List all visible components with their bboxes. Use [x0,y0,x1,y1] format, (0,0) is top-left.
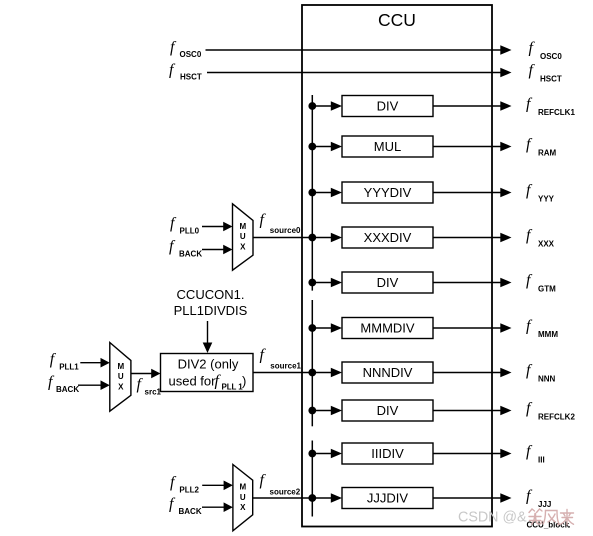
arrow f_MMM output [500,323,511,333]
node f_PLL0 input label [170,215,200,236]
svg-text:DIV: DIV [377,275,399,290]
arrow f_III output [500,449,511,459]
svg-text:source1: source1 [270,362,301,371]
node f_JJJ output label [526,488,551,510]
svg-text:used for: used for [169,374,217,389]
svg-text:M: M [117,362,124,371]
svg-text:U: U [240,232,246,241]
svg-text:HSCT: HSCT [180,73,202,82]
arrow f_BACK into MUX2 [224,502,233,512]
wire IIIDIV block to f_III output [433,453,501,455]
svg-text:REFCLK2: REFCLK2 [538,413,575,422]
node f_source2 label [260,472,301,496]
wire PLL1DIVDIS control to DIV2 [207,321,209,345]
arrow f_HSCT output [500,68,511,78]
node f_OSC0 output label [529,40,563,62]
arrow PLL1DIVDIS into DIV2 [203,343,213,354]
wire f_BACK to MUX1 [78,384,102,386]
svg-text:XXX: XXX [538,240,555,249]
node CCUCON1.PLL1DIVDIS control label [174,287,248,318]
node junction dot row 2 (RAM) [308,143,316,151]
svg-text:DIV: DIV [377,403,399,418]
mux MUX0 (source0) [233,204,254,270]
node f_NNN output label [526,362,556,384]
svg-text:YYYDIV: YYYDIV [364,185,412,200]
wire bus to JJJDIV block row 10 [312,497,331,499]
arrow f_PLL0 into MUX0 [223,222,232,232]
arrow into MMMDIV block row 6 [331,323,342,333]
svg-text:BACK: BACK [179,507,202,516]
arrow into IIIDIV block row 9 [331,449,342,459]
node junction dot row 5 (GTM) [308,279,316,287]
watermark glyph Bi [529,509,542,525]
node f_BACK input label (MUX2) [169,496,202,517]
arrow f_NNN output [500,368,511,378]
wire JJJDIV block to f_JJJ output [433,497,501,499]
node f_XXX output label [526,227,555,249]
node f_RAM output label [526,136,557,158]
svg-text:RAM: RAM [538,149,557,158]
svg-text:HSCT: HSCT [540,75,562,84]
wire XXXDIV block to f_XXX output [433,237,501,239]
node junction dot row 1 (REFCLK1) [308,102,316,110]
svg-text:CSDN @&: CSDN @& [458,510,527,526]
divider block JJJDIV row 10 [342,488,433,509]
node f_source1 label [260,347,302,371]
node junction dot row 6 (MMM) [308,324,316,332]
svg-text:source2: source2 [270,487,301,496]
svg-text:X: X [240,242,246,251]
node f_YYY output label [526,182,555,204]
wire f_src1 MUX1 to DIV2 [131,373,153,375]
svg-text:DIV2 (only: DIV2 (only [178,356,239,371]
node junction dot row 3 (YYY) [308,189,316,197]
wire bus to MUL block row 2 [312,146,331,148]
wire f_PLL2 to MUX2 [202,484,224,486]
wire bus to NNNDIV block row 7 [312,372,331,374]
svg-text:PLL2: PLL2 [179,485,199,494]
arrow f_XXX output [500,233,511,243]
svg-text:PLL0: PLL0 [180,227,200,236]
node f_GTM output label [526,272,556,294]
arrow into DIV block row 5 [331,278,342,288]
svg-text:PLL 1: PLL 1 [222,383,244,392]
svg-text:U: U [118,372,124,381]
svg-text:JJJDIV: JJJDIV [367,491,409,506]
node f_REFCLK2 output label [526,400,575,422]
svg-text:REFCLK1: REFCLK1 [538,108,575,117]
arrow f_REFCLK2 output [500,406,511,416]
svg-text:III: III [538,456,545,465]
svg-text:XXXDIV: XXXDIV [364,230,412,245]
arrow f_src1 into DIV2 [151,369,160,379]
svg-text:NNN: NNN [538,375,556,384]
wire bus to DIV block row 1 [312,105,331,107]
wire f_BACK to MUX0 [202,249,225,251]
wire f_PLL1 to MUX1 [80,362,102,364]
svg-text:CCU: CCU [378,10,416,30]
svg-text:X: X [240,503,246,512]
divider block NNNDIV row 7 [342,362,433,383]
divider block DIV row 5 [342,272,433,293]
divider block DIV row 8 [342,400,433,421]
divider block DIV row 1 [342,96,433,117]
wire f_BACK to MUX2 [202,506,225,508]
svg-text:M: M [239,222,246,231]
svg-text:CCUCON1.: CCUCON1. [177,287,245,302]
arrow f_OSC0 output [500,45,511,55]
wire MMMDIV block to f_MMM output [433,327,501,329]
arrow f_PLL2 into MUX2 [224,481,233,491]
divider block MMMDIV row 6 [342,318,433,339]
arrow f_BACK into MUX0 [223,245,232,255]
wire bus to IIIDIV block row 9 [312,453,331,455]
arrow into DIV block row 1 [331,101,342,111]
node f_HSCT input label [169,62,202,82]
wire bus to MMMDIV block row 6 [312,327,331,329]
node f_BACK input label (MUX1) [48,374,79,395]
node f_MMM output label [526,318,558,340]
node f_III output label [526,443,545,465]
arrow into NNNDIV block row 7 [331,368,342,378]
arrow f_REFCLK1 output [500,101,511,111]
arrow f_GTM output [500,278,511,288]
svg-text:DIV: DIV [377,99,399,114]
svg-text:): ) [242,374,246,389]
node f_PLL2 input label [170,474,200,495]
arrow f_BACK into MUX1 [101,380,110,390]
svg-text:U: U [240,493,246,502]
arrow f_YYY output [500,188,511,198]
svg-text:JJJ: JJJ [538,500,551,509]
mux MUX2 (source2) [233,465,253,531]
watermark glyph Feng [543,511,559,525]
svg-text:MMM: MMM [538,330,558,339]
svg-text:IIIDIV: IIIDIV [371,446,404,461]
wire bus segment source2 [311,441,313,517]
wire NNNDIV block to f_NNN output [433,372,501,374]
svg-text:X: X [118,382,124,391]
svg-text:MMMDIV: MMMDIV [360,321,414,336]
arrow into JJJDIV block row 10 [331,493,342,503]
svg-text:source0: source0 [270,226,301,235]
wire DIV block to f_REFCLK2 output [433,410,501,412]
wire f_source0 MUX0 to bus [253,237,312,239]
wire f_OSC0 through line [206,49,502,51]
wire bus segment source0 [311,95,313,291]
arrow f_RAM output [500,142,511,152]
arrow into MUL block row 2 [331,142,342,152]
svg-text:BACK: BACK [179,250,202,259]
wire bus to XXXDIV block row 4 [312,237,331,239]
svg-text:PLL1: PLL1 [59,363,79,372]
node junction dot row 4 (XXX) [308,234,316,242]
svg-text:BACK: BACK [56,385,79,394]
svg-text:MUL: MUL [374,139,401,154]
mux MUX1 (src1) [110,343,131,412]
divider block MUL row 2 [342,136,433,157]
svg-text:YYY: YYY [538,195,555,204]
node f_OSC0 input label [170,39,202,59]
arrow into DIV block row 8 [331,406,342,416]
node f_BACK input label (MUX0) [169,238,202,259]
svg-text:OSC0: OSC0 [180,50,202,59]
svg-text:OSC0: OSC0 [540,52,562,61]
node f_PLL1 input label [50,351,80,372]
wire YYYDIV block to f_YYY output [433,192,501,194]
divider block YYYDIV row 3 [342,182,433,203]
node f_HSCT output label [529,62,562,84]
svg-text:src1: src1 [145,387,162,396]
svg-text:NNNDIV: NNNDIV [363,365,413,380]
wire bus to YYYDIV block row 3 [312,192,331,194]
wire bus segment source1 [311,300,313,426]
arrow into YYYDIV block row 3 [331,188,342,198]
wire DIV block to f_REFCLK1 output [433,105,501,107]
divider block IIIDIV row 9 [342,443,433,464]
arrow f_JJJ output [500,493,511,503]
watermark glyph Lai [561,510,574,526]
wire f_source2 MUX2 to bus [253,497,313,499]
svg-text:M: M [239,483,246,492]
CCU block outline U1 [302,5,492,527]
node f_source0 label [260,212,302,236]
svg-text:GTM: GTM [538,285,556,294]
node f_src1 label [137,376,162,396]
svg-text:PLL1DIVDIS: PLL1DIVDIS [174,303,248,318]
node junction dot row 10 (JJJ) [308,494,316,502]
node f_REFCLK1 output label [526,96,575,118]
wire DIV block to f_GTM output [433,282,501,284]
node junction dot row 7 (NNN) [308,369,316,377]
wire f_source1 DIV2 to bus [253,372,312,374]
node junction dot row 8 (REFCLK2) [308,407,316,415]
divider block XXXDIV row 4 [342,227,433,248]
wire bus to DIV block row 5 [312,282,331,284]
wire MUL block to f_RAM output [433,146,501,148]
wire bus to DIV block row 8 [312,410,331,412]
arrow f_PLL1 into MUX1 [101,358,110,368]
wire f_HSCT through line [207,72,501,74]
node junction dot row 9 (III) [308,450,316,458]
wire f_PLL0 to MUX0 [202,226,225,228]
divider block DIV2 [161,354,254,392]
arrow into XXXDIV block row 4 [331,233,342,243]
